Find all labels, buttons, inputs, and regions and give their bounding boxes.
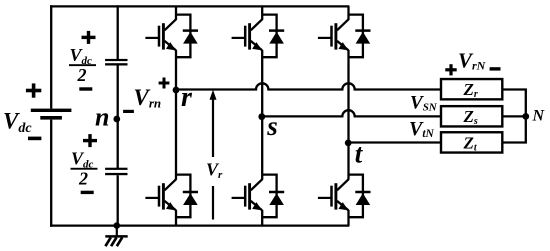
wire: DC-link rail top segment <box>117 5 119 59</box>
node N dot <box>522 113 529 120</box>
svg-text:r: r <box>181 82 193 113</box>
node t dot <box>345 140 352 147</box>
label: minus sign for VrN <box>490 67 501 70</box>
wire: leg r collector stub from top bus <box>175 6 177 19</box>
label: C1 Vdc/2 fraction <box>69 45 96 85</box>
junction: ground node dot <box>114 222 121 229</box>
impedance box Zs <box>441 106 502 127</box>
wire: battery rail bottom segment <box>50 120 52 227</box>
measurement arrow Vr (points up to node r) <box>204 90 229 220</box>
diode Dt1 (freewheeling) with connecting wires <box>349 15 371 58</box>
wire: phase t output line <box>349 141 442 143</box>
battery Vdc <box>31 109 72 120</box>
transistor Qr2 (lower) (IGBT) <box>145 179 176 211</box>
wire: top DC bus <box>50 5 349 7</box>
label: battery plus sign <box>26 83 41 97</box>
transistor Qs1 (upper) (IGBT) <box>232 19 263 51</box>
capacitor C1 (Vdc/2) <box>105 59 127 66</box>
svg-text:2: 2 <box>77 65 87 85</box>
capacitor C2 (Vdc/2) <box>105 168 127 176</box>
node r dot <box>173 87 180 94</box>
label: minus sign right of n <box>123 110 134 113</box>
node s dot <box>258 113 265 120</box>
svg-text:2: 2 <box>78 168 88 188</box>
wire: bottom DC bus <box>50 224 349 226</box>
wire: Zr output to node N <box>502 90 526 117</box>
diode Dr1 (freewheeling) with connecting wires <box>176 15 198 58</box>
label: C2 minus sign <box>81 191 94 194</box>
transistor Qr1 (upper) (IGBT) <box>145 19 176 51</box>
wire: Zt output to node N <box>502 116 526 142</box>
wire: leg s midpoint vertical <box>261 50 263 179</box>
wire: leg r emitter stub to bottom bus <box>175 210 177 226</box>
transistor Qt1 (upper) (IGBT) <box>318 19 349 51</box>
ground symbol <box>105 226 127 247</box>
wire: leg s collector stub from top bus <box>261 6 263 19</box>
impedance box Zr <box>441 79 502 100</box>
wire: battery rail top segment <box>50 5 52 108</box>
node n dot <box>113 116 120 123</box>
wire: DC-link rail middle segment <box>117 66 119 169</box>
label: battery minus sign <box>28 137 41 141</box>
svg-text:N: N <box>532 108 546 125</box>
svg-text:n: n <box>95 103 109 132</box>
wire: leg s emitter stub to bottom bus <box>261 210 263 226</box>
diode Ds2 (freewheeling) with connecting wires <box>262 175 284 218</box>
wire: DC-link rail bottom segment <box>117 175 119 225</box>
wire: leg t collector stub from top bus <box>347 6 349 19</box>
diode Ds1 (freewheeling) with connecting wires <box>262 15 284 58</box>
label: C1 minus sign <box>79 87 92 90</box>
wire: phase s output line (hops over leg t) <box>262 110 441 116</box>
wire: Zs output to node N <box>502 115 526 117</box>
label: plus sign for VrN <box>445 64 456 75</box>
wire: leg t emitter stub to bottom bus <box>347 210 349 226</box>
transistor Qt2 (lower) (IGBT) <box>318 179 349 211</box>
label: plus sign above r <box>159 78 170 89</box>
wire: leg t midpoint vertical <box>347 50 349 179</box>
label: C1 plus sign <box>82 31 96 44</box>
diode Dt2 (freewheeling) with connecting wires <box>349 175 371 218</box>
wire: leg r midpoint vertical <box>175 50 177 179</box>
label: C2 plus sign <box>83 134 97 147</box>
impedance box Zt <box>441 132 502 153</box>
transistor Qs2 (lower) (IGBT) <box>232 179 263 211</box>
wire: phase r output line (hops over legs s,t) <box>176 83 442 89</box>
diode Dr2 (freewheeling) with connecting wires <box>176 175 198 218</box>
svg-text:s: s <box>266 111 278 141</box>
label: C2 Vdc/2 fraction <box>71 149 98 189</box>
